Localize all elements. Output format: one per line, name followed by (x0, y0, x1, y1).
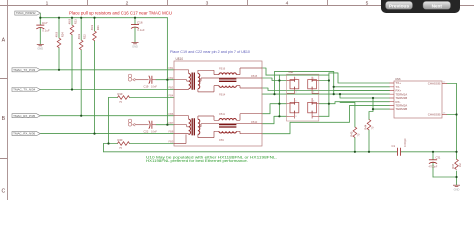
node rail R22 junction (80, 17, 82, 19)
svg-text:FB10: FB10 (251, 120, 258, 124)
svg-text:R44: R44 (364, 124, 368, 129)
svg-text:U$A: U$A (289, 71, 294, 74)
TX secondary to choke connections (198, 70, 262, 92)
node rail chassis junction (455, 151, 457, 153)
wire R24 bottom lead to TD+ (58, 48, 60, 70)
squares element B (308, 80, 317, 89)
svg-text:C19: C19 (144, 85, 149, 89)
wire R19 right lead to pin FB4 (130, 97, 175, 99)
wire TX pair direct to jack pin TX+ (329, 73, 390, 83)
wire C16 bottom lead to ground (134, 27, 136, 42)
svg-text:75: 75 (119, 100, 122, 104)
resistor R19 (118, 96, 130, 100)
capacitor C31 (429, 160, 437, 164)
sheet frame left line (7, 6, 9, 201)
node RD- R21 junction (93, 133, 95, 135)
frame row letters (2, 38, 6, 195)
frame row ticks (0, 79, 8, 159)
svg-text:3: 3 (206, 1, 209, 7)
wire bob-smith corner down (103, 144, 105, 152)
RX primary connections (174, 116, 189, 144)
svg-text:Place pull up resistors and C1: Place pull up resistors and C16 C17 near… (69, 10, 172, 15)
wire block right pin 1 (319, 80, 329, 82)
wire R45 bottom lead (354, 138, 356, 152)
frame column ticks (8, 0, 408, 6)
U$10 left pin names (169, 66, 174, 144)
svg-text:GND: GND (454, 187, 460, 191)
RX isolation transformer secondary winding (198, 119, 200, 134)
svg-text:R45: R45 (350, 131, 354, 136)
TX choke core (219, 79, 236, 81)
jumper SJ2 (128, 119, 135, 126)
node right bus pin1 (328, 79, 330, 81)
node rail R21 junction (93, 17, 95, 19)
svg-text:C17: C17 (42, 21, 48, 25)
svg-text:TMAC_PWR/32: TMAC_PWR/32 (16, 11, 36, 15)
wire outer top jumper (275, 71, 334, 73)
wire C17 bottom lead to ground (39, 28, 41, 44)
U$10 body outline (174, 61, 262, 146)
RX choke core (219, 125, 236, 127)
wire R21 bottom lead to RD- (94, 41, 96, 134)
wire net RD- flag5 to U$10 pin FB8 (40, 133, 174, 135)
svg-text:R21: R21 (96, 25, 100, 30)
svg-text:C1: C1 (392, 144, 396, 148)
resistor R44 (367, 120, 371, 130)
resistor R22 (79, 40, 83, 50)
svg-text:C31: C31 (436, 155, 441, 159)
svg-text:0.1uF: 0.1uF (137, 28, 145, 32)
wire R47 bottom lead to ground (456, 171, 458, 185)
wire R44 feed (369, 109, 373, 119)
wire U$10 pin FB15 to block pin 1 (262, 78, 287, 81)
node rail R44 junction (368, 151, 370, 153)
wire bob-smith bottom rail left of C1 (104, 151, 398, 153)
RX secondary to choke connections (198, 116, 262, 138)
wire SJ2 to C22 (135, 124, 149, 126)
node left bus pin3 (278, 103, 280, 105)
squares element A (290, 80, 299, 89)
capacitor C1 (397, 148, 400, 156)
wire inner top jumper (266, 74, 329, 76)
node TX center tap junction (166, 79, 168, 81)
svg-text:FB16: FB16 (219, 66, 226, 70)
node TD+ R24 junction (58, 69, 60, 71)
svg-text:U$10: U$10 (176, 57, 184, 61)
capacitor C16 (131, 25, 139, 29)
node left bus pin1 (278, 79, 280, 81)
element pin stubs (287, 77, 319, 119)
node TERM2B R44 tap (372, 108, 374, 110)
wire R23 top lead (71, 18, 73, 25)
capacitor C19 (149, 76, 156, 84)
svg-text:CHASSIS: CHASSIS (428, 113, 441, 117)
svg-text:49.9: 49.9 (55, 31, 59, 37)
RX choke winding A (219, 119, 236, 121)
svg-text:TMAC_TX_N/34: TMAC_TX_N/34 (13, 88, 36, 92)
wire bob-smith vertical R19 to R43 (108, 98, 110, 144)
TX isolation transformer primary winding (189, 73, 191, 88)
wire R21 top lead (94, 18, 96, 31)
svg-text:49.9: 49.9 (90, 24, 94, 30)
TX transformer core (192, 73, 194, 90)
wire chassis bottom pin (447, 114, 457, 116)
svg-text:R47: R47 (451, 163, 455, 168)
TX choke output connections (236, 68, 262, 88)
wire net TD+ flag2 to U$10 pin FB1 (40, 69, 174, 71)
svg-text:FB8: FB8 (169, 130, 174, 134)
node outer left junction (273, 93, 275, 95)
svg-text:FB1: FB1 (169, 66, 174, 70)
wire R22 top lead (80, 18, 82, 40)
svg-text:FB2: FB2 (169, 76, 174, 80)
node flag TMAC_TX_P (12, 68, 40, 72)
svg-text:TMAC_TX_P/33: TMAC_TX_P/33 (13, 68, 36, 72)
svg-text:B: B (2, 116, 6, 122)
svg-text:FB7: FB7 (169, 121, 174, 125)
wire left bus vertical (278, 75, 280, 116)
node chassis pins junction (455, 113, 457, 115)
svg-text:FB6: FB6 (169, 112, 174, 116)
svg-text:49.9: 49.9 (77, 33, 81, 39)
svg-text:75: 75 (371, 126, 375, 129)
capacitor C17 (36, 25, 44, 29)
wire C31 top lead (432, 152, 434, 160)
node rail R24 junction (58, 17, 60, 19)
svg-text:FB9: FB9 (219, 138, 224, 142)
jumper SJ1 (128, 74, 135, 81)
wire bottom rail right of C1 (401, 151, 457, 153)
node TD- R23 junction (71, 88, 73, 90)
svg-text:1: 1 (46, 1, 49, 7)
wire U$10 pin FB11 to block pin 3 (262, 104, 287, 114)
capacitor C22 (149, 121, 156, 129)
wire to jack pin RX+ (334, 90, 390, 92)
node C31 R47 ground junction (455, 176, 457, 178)
svg-text:TMAC_RX_N/36: TMAC_RX_N/36 (13, 132, 36, 136)
wire U$10 pin FB16 to mid bus (262, 68, 266, 75)
svg-text:R43: R43 (118, 138, 123, 142)
svg-text:10nF: 10nF (151, 85, 157, 89)
frame column numbers (46, 1, 369, 7)
svg-text:FB15: FB15 (251, 74, 258, 78)
ground below C16 (132, 42, 139, 43)
RX choke output connections (236, 114, 262, 134)
resistor R23 (70, 25, 74, 35)
svg-text:1000pF: 1000pF (403, 138, 407, 147)
node flag TMAC_RX_P (12, 114, 40, 118)
wire outer left vertical (274, 72, 276, 95)
svg-text:C16: C16 (137, 20, 143, 24)
svg-text:4: 4 (286, 1, 289, 7)
TX primary connections (174, 70, 189, 90)
wire U$10 pin FB14 to jack RX+ (262, 88, 390, 91)
TX choke winding B (219, 86, 236, 88)
ground below R47 (453, 185, 460, 186)
wire to jack pin TX- (334, 86, 390, 88)
wire VDD rail vertical to center taps (166, 18, 168, 125)
node flag TMAC_RX_N (12, 132, 40, 136)
wire TX center tap C19 to pin FB2 (156, 79, 174, 81)
wire chassis top pin (447, 83, 457, 85)
wire U$10 pin FB9 to jack TERM2A (262, 105, 390, 133)
RX isolation transformer primary winding (189, 119, 191, 134)
wire C17 top lead (39, 18, 41, 25)
svg-text:TERM2B: TERM2B (396, 107, 408, 111)
svg-text:75: 75 (357, 133, 361, 136)
resistor R47 (455, 159, 459, 169)
node right bus pin3 (328, 103, 330, 105)
wire R19 left lead (109, 97, 118, 99)
svg-text:C: C (2, 189, 6, 195)
squares element C (290, 102, 299, 112)
node bob-smith R19/R43 junction (107, 142, 109, 144)
node rail-flag1-C17 junction (39, 17, 41, 19)
U$10 right pin names (219, 66, 258, 142)
wire to jack TERM1B (340, 94, 390, 98)
svg-text:0.1uF: 0.1uF (42, 29, 50, 33)
node TERM1B tap (339, 93, 341, 95)
node flag TMAC_PWR (15, 11, 41, 15)
svg-text:5: 5 (366, 1, 369, 7)
svg-text:C22: C22 (144, 130, 149, 134)
wire R43 left lead (104, 143, 118, 145)
wire SJ1 to C19 (135, 79, 149, 81)
element internal plates (294, 80, 312, 113)
wire chassis vertical (456, 84, 458, 152)
element pin numbers (295, 78, 315, 118)
TX isolation transformer secondary winding (198, 74, 200, 89)
svg-text:R22: R22 (83, 34, 87, 39)
ethernet jack U$6 (390, 77, 448, 118)
wire net RD+ flag4 to U$10 pin FB6 (40, 115, 174, 117)
U$6 right pin stubs (442, 84, 447, 115)
U$6 chassis pin names (428, 82, 441, 117)
node RX center tap junction (166, 124, 168, 126)
wire U$10 pin FB10 to block pin 4 (262, 116, 287, 123)
wire C31 bottom lead (432, 163, 434, 177)
wire C16 top lead (134, 18, 136, 25)
U$6 pin names (396, 81, 408, 111)
svg-text:49.9: 49.9 (68, 18, 72, 24)
U$6 left pin stubs (390, 83, 395, 109)
wire R23 bottom lead to TD- (71, 35, 73, 90)
svg-text:R24: R24 (60, 32, 64, 37)
sheet frame top line (0, 5, 474, 7)
resistor R24 (57, 38, 61, 48)
svg-text:R23: R23 (73, 19, 77, 24)
wire R45 feed (340, 102, 355, 127)
squares element D (308, 102, 317, 112)
wire R43 right lead to pin FB5 (130, 143, 175, 145)
wire secondary center to jack TERM1A (262, 93, 390, 95)
svg-text:GND: GND (37, 47, 43, 51)
svg-text:FB11: FB11 (219, 112, 226, 116)
node rail C16 junction (134, 17, 136, 19)
U$6 body outline (394, 81, 442, 118)
svg-text:CHASSIS: CHASSIS (428, 82, 441, 86)
termination block U$11 (287, 71, 319, 121)
node rail R45 junction (354, 151, 356, 153)
wire RX center tap C22 to pin FB7 (156, 124, 174, 126)
wire right bus vertical (328, 73, 330, 116)
wire R44 bottom lead (368, 130, 370, 152)
resistor R43 (118, 142, 130, 146)
node TX- tap (333, 86, 335, 88)
ground below C17 (37, 44, 44, 45)
wire pull-up rail (40, 17, 167, 19)
svg-text:FB3: FB3 (169, 86, 174, 90)
U$11 boundary box (287, 74, 319, 121)
svg-text:4700pF: 4700pF (429, 164, 438, 168)
svg-text:FB14: FB14 (219, 92, 226, 96)
svg-text:2: 2 (126, 1, 129, 7)
wire flag1 stub to pull-up rail (39, 13, 41, 18)
wire R47 top lead (456, 152, 458, 159)
wire net TD- flag3 to U$10 pin FB3 (40, 89, 174, 91)
wire block right pin 3 to jack RX- (319, 102, 390, 104)
resistor R21 (93, 31, 97, 41)
RX transformer core (192, 118, 194, 135)
node rail C31 junction (432, 151, 434, 153)
wire jack TERM2B branch (373, 98, 390, 109)
svg-text:Previous: Previous (389, 3, 410, 9)
svg-text:FB4: FB4 (169, 94, 174, 98)
wire C31 to R47 ground node (433, 176, 457, 178)
BUTTONS (381, 0, 460, 13)
TX choke winding A (219, 73, 236, 75)
svg-text:GND: GND (132, 45, 138, 49)
node outer right junction (333, 93, 335, 95)
svg-text:HX1198FNL preferred for best E: HX1198FNL preferred for best Ethernet pe… (146, 159, 248, 163)
wire block right pin 4 (319, 115, 329, 117)
node TERM2B tap upper (372, 97, 374, 99)
svg-text:10nF: 10nF (151, 130, 157, 134)
svg-text:Place C19 and C22 near pin 2 a: Place C19 and C22 near pin 2 and pin 7 o… (170, 50, 250, 54)
transformer U$10 (169, 57, 262, 146)
node flag TMAC_TX_N (12, 88, 40, 92)
svg-text:R19: R19 (118, 92, 123, 96)
wire R24 top lead (58, 18, 60, 38)
wire R22 bottom lead to RD+ (80, 50, 82, 116)
svg-text:TMAC_RX_P/35: TMAC_RX_P/35 (13, 114, 36, 118)
svg-text:FB5: FB5 (169, 140, 174, 144)
U$6 chassis pin numbers (443, 82, 446, 115)
svg-text:A: A (2, 38, 6, 44)
svg-text:Next: Next (432, 3, 443, 9)
resistor R45 (353, 127, 357, 137)
node left bus pin4 (278, 115, 280, 117)
svg-text:75: 75 (119, 146, 122, 150)
wire outer right vertical (333, 72, 335, 95)
RX choke winding B (219, 131, 236, 133)
node rail R23 junction (71, 17, 73, 19)
node RD+ R22 junction (80, 115, 82, 117)
